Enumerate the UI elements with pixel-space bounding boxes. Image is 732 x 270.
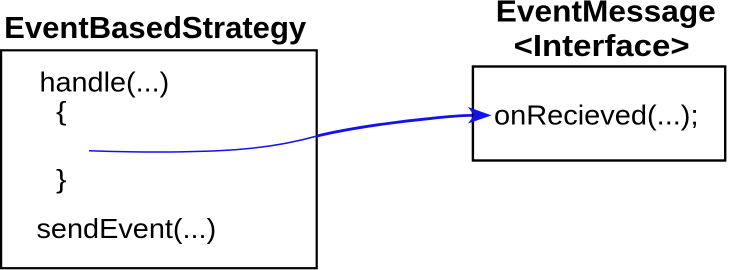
arrow shaft thin segment <box>89 136 317 152</box>
svg-text:<Interface>: <Interface> <box>514 28 690 63</box>
interface box EventMessage <box>473 67 725 161</box>
svg-text:EventMessage: EventMessage <box>496 0 716 29</box>
arrow shaft thick segment <box>317 115 472 136</box>
svg-text:}: } <box>56 164 67 194</box>
svg-text:sendEvent(...): sendEvent(...) <box>37 213 217 244</box>
svg-text:onRecieved(...);: onRecieved(...); <box>494 100 699 131</box>
arrowhead <box>468 107 492 124</box>
svg-text:handle(...): handle(...) <box>40 67 170 98</box>
svg-text:EventBasedStrategy: EventBasedStrategy <box>4 10 307 45</box>
class box EventBasedStrategy <box>1 50 317 268</box>
svg-text:{: { <box>56 96 67 126</box>
